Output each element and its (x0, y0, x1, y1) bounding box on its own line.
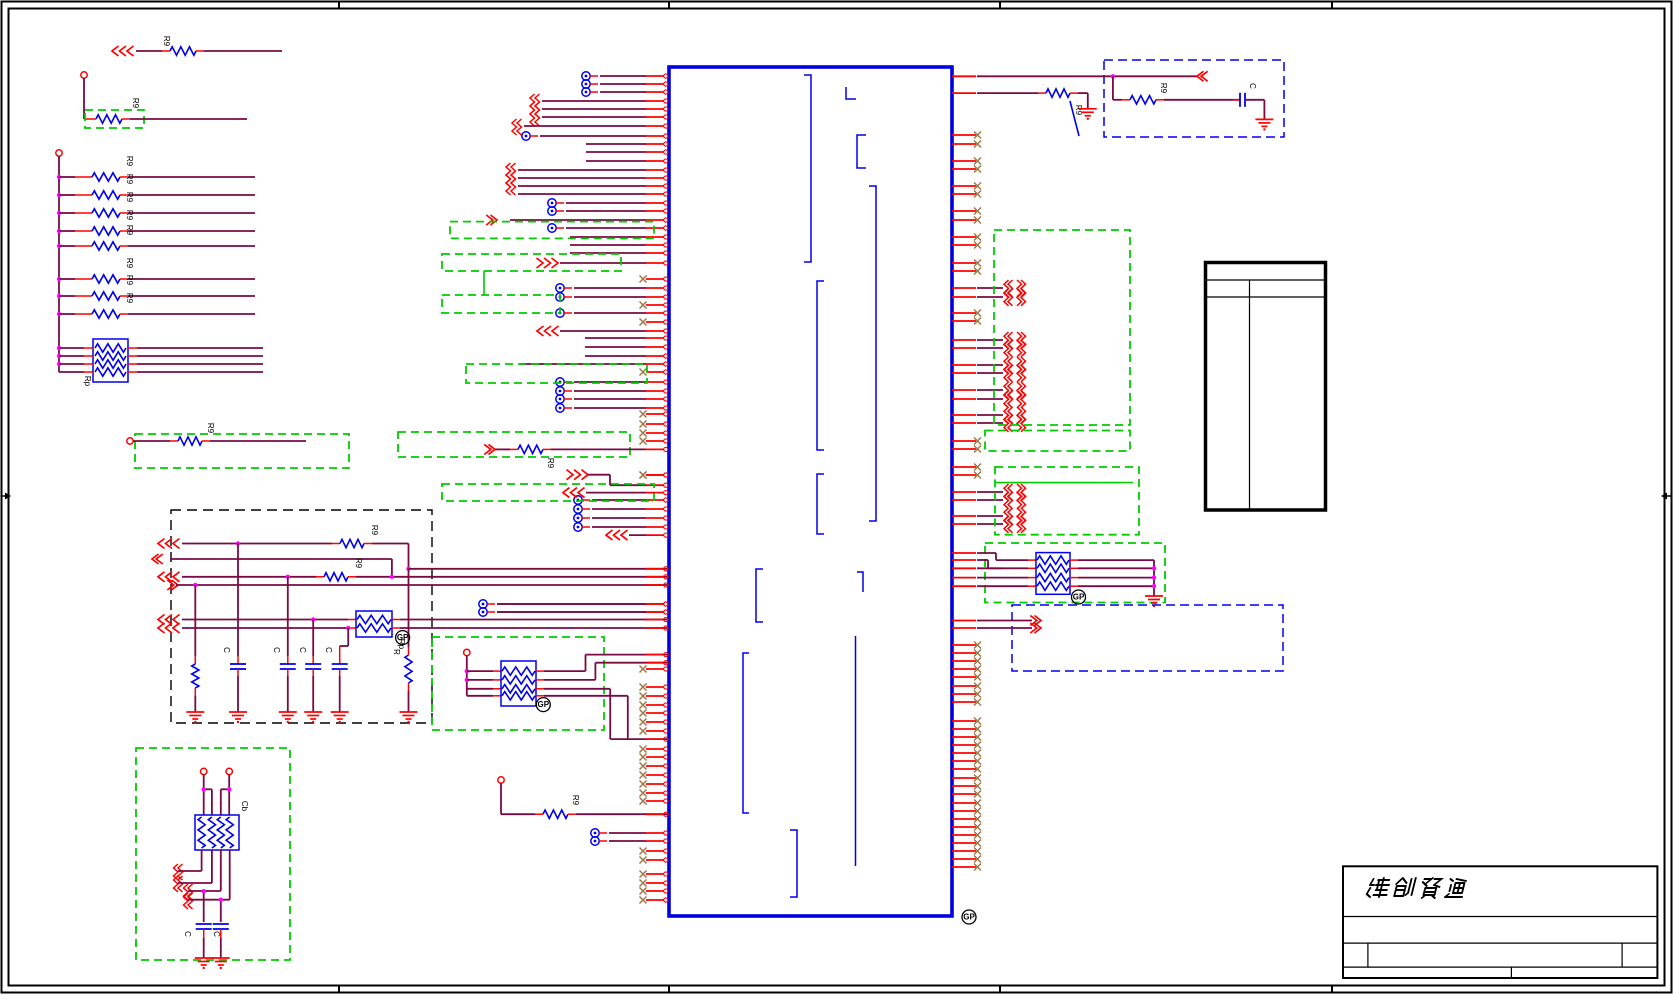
no-connect pin (640, 276, 668, 283)
svg-text:R9: R9 (125, 258, 134, 269)
no-connect pin (640, 438, 668, 445)
wire (467, 670, 501, 672)
ground (1145, 596, 1163, 607)
green box 13 (995, 467, 1139, 535)
green box 6 (442, 254, 621, 271)
no-connect pin (952, 800, 981, 807)
pin wire (520, 362, 668, 366)
junction (57, 362, 61, 366)
wire (120, 194, 255, 196)
pin wire (574, 397, 668, 401)
pin wire (952, 620, 1032, 622)
bus tap squiggle (506, 179, 516, 195)
junction (219, 898, 223, 902)
test point (556, 378, 572, 386)
off-page arrows (486, 215, 497, 225)
wire (136, 50, 204, 52)
no-connect pin (952, 242, 981, 249)
no-connect pin (640, 411, 668, 418)
pin wire (570, 243, 668, 247)
pin wire (952, 389, 1003, 391)
wire (588, 475, 646, 486)
wire (182, 627, 356, 629)
junction (1111, 74, 1115, 78)
pin wire (497, 610, 668, 614)
bus tap squiggle (1004, 407, 1026, 424)
pin wire (518, 184, 668, 188)
pin wire (585, 345, 668, 349)
no-connect pin (952, 734, 981, 741)
no-connect pin (640, 754, 668, 761)
green box 11 (994, 230, 1130, 425)
svg-text:GP: GP (397, 633, 409, 642)
test point (548, 207, 564, 215)
bus tap squiggle (1004, 280, 1026, 297)
pin wire (646, 737, 668, 741)
test point (556, 395, 572, 403)
test point (582, 72, 598, 80)
no-connect pin (952, 840, 981, 847)
svg-text:R: R (392, 649, 401, 655)
pin wire (592, 516, 668, 520)
svg-text:C: C (324, 647, 333, 653)
no-connect pin (640, 880, 668, 887)
pin wire (586, 150, 668, 154)
pin wire (952, 499, 1003, 501)
junction (57, 244, 61, 248)
label R19 (1074, 105, 1083, 116)
off-page arrows (158, 623, 180, 633)
junction (57, 294, 61, 298)
resistor network RN2 (356, 611, 392, 637)
bus tap squiggle (1004, 508, 1026, 525)
wire (536, 663, 669, 680)
ground (1255, 119, 1273, 130)
svg-text:R9: R9 (162, 36, 171, 47)
pin wire (542, 115, 668, 119)
resistor R15 (405, 655, 412, 683)
bus bracket 2 (846, 87, 856, 99)
pin wire (952, 560, 1002, 568)
wire vertical bus (58, 156, 60, 372)
pin wire (646, 575, 668, 579)
svg-text:R9: R9 (125, 156, 134, 167)
pin wire (952, 515, 1003, 517)
no-connect pin (952, 464, 981, 471)
wire (203, 929, 205, 958)
resistor R2 (96, 115, 122, 123)
junction (193, 583, 197, 587)
label C1 (222, 647, 231, 653)
test point (548, 224, 564, 232)
wire (59, 347, 263, 349)
ground (195, 958, 213, 969)
label RN1 (83, 376, 92, 387)
no-connect pin (640, 772, 668, 779)
no-connect pin (952, 260, 981, 267)
bus tap squiggle (1004, 391, 1026, 408)
no-connect pin (952, 832, 981, 839)
resistor R12 (340, 539, 364, 547)
terminal (464, 649, 470, 655)
wire (408, 569, 410, 655)
pin wire (952, 577, 1036, 579)
resistor R3 (92, 173, 120, 181)
green box 8 (466, 364, 647, 383)
pin wire (586, 159, 668, 163)
wire (237, 544, 239, 665)
svg-text:R9: R9 (125, 225, 134, 236)
IC U1 (669, 67, 952, 916)
bus tap squiggle (1004, 340, 1026, 357)
bus bracket 4 (869, 186, 876, 521)
resistor R14 (192, 664, 199, 688)
pin wire (566, 209, 668, 213)
test point (522, 132, 538, 140)
wire (59, 313, 92, 315)
resistor R18 (1130, 96, 1156, 104)
no-connect pin (952, 699, 981, 706)
wire (59, 212, 92, 214)
resistor R19 (1046, 89, 1070, 97)
wire (501, 783, 543, 814)
label R5 (125, 192, 134, 203)
wire (120, 278, 255, 280)
pin wire (952, 567, 1036, 569)
no-connect pin (952, 683, 981, 690)
wire (176, 584, 669, 586)
wire (204, 775, 212, 816)
pin wire (497, 602, 668, 606)
ground (400, 712, 418, 723)
pin wire (952, 347, 1003, 349)
wire (202, 440, 306, 442)
bus tap squiggle (1004, 289, 1026, 306)
off-page arrows (537, 258, 559, 268)
resistor R4 (92, 191, 120, 199)
svg-text:C: C (212, 931, 221, 937)
wire (220, 929, 222, 958)
svg-text:R9: R9 (1074, 105, 1083, 116)
no-connect pin (640, 763, 668, 770)
svg-text:GP: GP (1073, 593, 1085, 602)
off-page arrows (167, 580, 178, 590)
wire (120, 245, 255, 247)
svg-text:GP: GP (538, 700, 550, 709)
no-connect pin (952, 318, 981, 325)
pin wire (543, 447, 668, 451)
wire (221, 775, 229, 816)
pin wire (952, 422, 1003, 424)
label R2 (131, 98, 140, 109)
blue dashed box 2 (1012, 605, 1283, 671)
bus bracket 10 (790, 830, 797, 897)
bus bracket 8 (857, 572, 863, 592)
junction (406, 567, 410, 571)
wire (392, 627, 669, 629)
no-connect pin (952, 208, 981, 215)
no-connect pin (952, 691, 981, 698)
wire (237, 669, 239, 712)
resistor R9 (92, 292, 120, 300)
svg-text:Cb: Cb (240, 801, 249, 812)
bus bracket 3 (857, 135, 866, 168)
label R9 (125, 275, 134, 286)
svg-text:R9: R9 (125, 192, 134, 203)
no-connect pin (952, 166, 981, 173)
pin wire (952, 585, 1036, 587)
pin wire (952, 339, 1003, 341)
no-connect pin (952, 674, 981, 681)
no-connect pin (952, 758, 981, 765)
wire (59, 230, 92, 232)
junction (236, 541, 240, 545)
svg-text:Rp: Rp (83, 376, 92, 387)
green line (995, 482, 1133, 484)
off-page arrows (1030, 616, 1041, 626)
resistor network RN5 (1036, 553, 1070, 595)
no-connect pin (640, 790, 668, 797)
junction (202, 787, 206, 791)
no-connect pin (640, 693, 668, 700)
label R6 (125, 210, 134, 221)
junction (346, 626, 350, 630)
terminal (498, 777, 504, 783)
no-connect pin (952, 158, 981, 165)
off-page arrows (152, 554, 163, 564)
no-connect pin (640, 871, 668, 878)
pin wire (952, 296, 1003, 298)
label R7 (125, 225, 134, 236)
no-connect pin (952, 750, 981, 757)
pin wire (592, 507, 668, 511)
pin wire (646, 653, 668, 657)
no-connect pin (640, 369, 668, 376)
no-connect pin (952, 816, 981, 823)
pin wire (540, 134, 668, 138)
no-connect pin (640, 728, 668, 735)
wire (340, 628, 349, 664)
resistor R1 (170, 47, 196, 55)
wire (536, 696, 628, 739)
pin wire (574, 380, 668, 384)
svg-text:C: C (183, 931, 192, 937)
junction (1152, 566, 1156, 570)
wire (1070, 567, 1154, 569)
no-connect pin (952, 191, 981, 198)
svg-text:R9: R9 (125, 210, 134, 221)
junction (57, 354, 61, 358)
pin wire (560, 261, 668, 265)
no-connect pin (640, 319, 668, 326)
wire (122, 118, 247, 120)
ground (1079, 109, 1097, 120)
wire (59, 295, 92, 297)
resistor R16 (543, 810, 568, 818)
green box 9 (398, 432, 630, 457)
junction (57, 277, 61, 281)
off-page arrows (537, 326, 559, 336)
terminal (127, 438, 133, 444)
pin wire (609, 831, 668, 835)
bus tap squiggle (1004, 357, 1026, 374)
wire (467, 695, 501, 697)
junction (465, 678, 469, 682)
pin wire (524, 124, 668, 128)
junction (390, 575, 394, 579)
pin wire (570, 251, 668, 255)
svg-text:R9: R9 (125, 293, 134, 304)
label R17 (546, 458, 555, 469)
terminal (56, 150, 62, 156)
green box 4 (432, 637, 604, 730)
capacitor C7 (1240, 93, 1245, 107)
no-stuff slash (1070, 101, 1079, 136)
no-connect pin (640, 857, 668, 864)
resistor R11 (178, 437, 202, 445)
test point (556, 293, 572, 301)
wire (120, 230, 255, 232)
pin wire (600, 90, 668, 94)
wire (409, 568, 670, 570)
svg-text:C: C (272, 647, 281, 653)
svg-text:R9: R9 (370, 525, 379, 536)
no-connect pin (952, 824, 981, 831)
pin wire (585, 336, 668, 340)
junction (57, 175, 61, 179)
capacitor C2 (280, 664, 296, 669)
test point (556, 387, 572, 395)
pin wire (952, 372, 1003, 374)
junction (57, 193, 61, 197)
label R1 (162, 36, 171, 47)
no-connect pin (640, 702, 668, 709)
label R11 (206, 423, 215, 434)
label R4 (125, 174, 134, 185)
terminal (81, 72, 87, 78)
svg-text:R9: R9 (125, 275, 134, 286)
junction (286, 575, 290, 579)
label RN2 (397, 639, 406, 650)
test point (574, 523, 590, 531)
bus tap squiggle (512, 119, 522, 135)
wire (59, 363, 263, 365)
connector J1 (1206, 263, 1326, 511)
junction (202, 889, 206, 893)
bus tap squiggle (530, 102, 540, 118)
pin wire (574, 286, 668, 290)
label R8 (125, 258, 134, 269)
pin wire (646, 812, 668, 816)
resistor network RN4 (501, 661, 536, 706)
ground (279, 712, 297, 723)
wire (348, 576, 669, 578)
wire (170, 559, 392, 577)
wire (467, 679, 501, 681)
pin wire (646, 617, 668, 621)
bus tap squiggle (506, 171, 516, 187)
test point (582, 80, 598, 88)
no-connect pin (640, 719, 668, 726)
test point (591, 837, 607, 845)
green box 1 (85, 110, 144, 128)
wire (59, 194, 92, 196)
resistor network RN1 (93, 339, 128, 382)
bus tap squiggle (1004, 382, 1026, 399)
svg-text:GP: GP (963, 913, 975, 922)
no-connect pin (952, 726, 981, 733)
wire (1070, 577, 1154, 579)
wire (178, 850, 212, 883)
label C2 (272, 647, 281, 653)
no-connect pin (952, 864, 981, 871)
no-connect pin (952, 446, 981, 453)
no-connect pin (952, 742, 981, 749)
bus bracket 1 (804, 75, 811, 262)
pin wire (952, 287, 1003, 289)
pin wire (952, 75, 1197, 77)
label R13 (354, 558, 363, 569)
no-connect pin (640, 781, 668, 788)
off-page arrows (158, 572, 180, 582)
wire (84, 78, 96, 119)
pin wire (518, 192, 668, 196)
wire (182, 543, 340, 545)
pin wire (566, 226, 668, 230)
label C4 (324, 647, 333, 653)
junction (1152, 575, 1156, 579)
pin wire (600, 82, 668, 86)
capacitor C5 (196, 924, 212, 929)
pin wire (609, 839, 668, 843)
no-connect pin (640, 666, 668, 673)
bus squiggle (174, 864, 193, 909)
bus tap squiggle (530, 94, 540, 110)
ground (331, 712, 349, 723)
pin wire (570, 235, 668, 239)
test point (591, 829, 607, 837)
pin wire (600, 74, 668, 78)
test point (556, 309, 572, 317)
svg-text:R9: R9 (571, 795, 580, 806)
black dashed box (171, 510, 432, 723)
bus tap squiggle (1004, 492, 1026, 509)
bus tap squiggle (1004, 365, 1026, 382)
test point (556, 284, 572, 292)
pin wire (574, 311, 668, 315)
pin wire (952, 414, 1003, 416)
off-page arrows (158, 615, 180, 625)
no-connect pin (952, 650, 981, 657)
bus tap squiggle (506, 163, 516, 179)
no-connect pin (952, 791, 981, 798)
blue dashed box 1 (1104, 60, 1284, 137)
resistor R10 (92, 310, 120, 318)
wire (204, 50, 282, 52)
pin wire (574, 389, 668, 393)
junction (57, 346, 61, 350)
pin wire (646, 483, 668, 487)
no-connect pin (640, 888, 668, 895)
no-connect pin (640, 430, 668, 437)
resistor network RN3 (195, 815, 239, 850)
junction (57, 211, 61, 215)
wire (408, 683, 410, 712)
pin wire (629, 533, 668, 537)
green box 3 (136, 748, 290, 960)
pin wire (497, 610, 668, 614)
wire (392, 619, 669, 621)
